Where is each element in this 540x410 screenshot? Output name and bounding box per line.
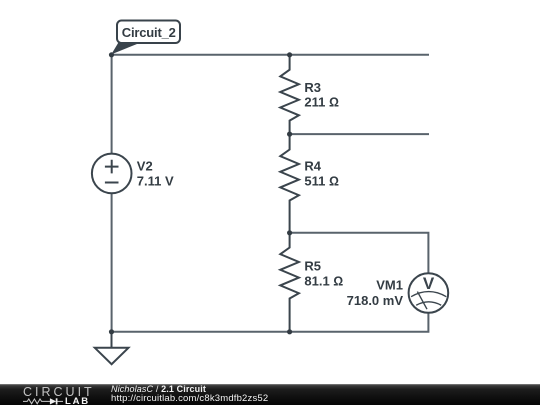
logo LAB text — [65, 398, 90, 406]
node: R5 bottom junction — [287, 329, 292, 334]
voltmeter VM1 — [409, 273, 449, 313]
label R4 value — [304, 159, 339, 189]
wire: mid rail below R3 to open terminal — [290, 133, 429, 135]
node: top-left junction — [109, 52, 114, 57]
label VM1 value — [347, 278, 404, 308]
wire: rail below R4 to voltmeter top — [290, 233, 429, 273]
footer bar — [0, 384, 540, 405]
CircuitLab logo zigzag-diode symbol — [23, 398, 65, 405]
attribution line 2 — [111, 394, 268, 404]
CircuitLab logo wordmark — [23, 387, 95, 398]
svg-text:V2: V2 — [137, 158, 153, 173]
svg-text:V: V — [423, 274, 435, 293]
node: R3 top junction — [287, 52, 292, 57]
wire: left rail lower (V2 to bottom rail) — [111, 193, 113, 332]
resistor R4 — [280, 134, 299, 233]
attribution line 1 — [111, 384, 206, 394]
label V2 value — [137, 158, 174, 188]
node: R4/R5 junction — [287, 230, 292, 235]
wire: left rail upper (top rail to V2) — [111, 55, 113, 154]
node: ground junction — [109, 329, 114, 334]
callout label Circuit_2 — [111, 21, 180, 55]
svg-text:R3: R3 — [304, 80, 321, 95]
svg-text:VM1: VM1 — [376, 278, 403, 293]
node: R3/R4 junction — [287, 132, 292, 137]
resistor R3 — [280, 55, 299, 134]
label R3 value — [304, 80, 339, 110]
svg-text:7.11 V: 7.11 V — [137, 174, 174, 189]
svg-text:R5: R5 — [304, 258, 321, 273]
resistor R5 — [280, 233, 299, 332]
svg-text:211 Ω: 211 Ω — [304, 95, 339, 110]
label R5 value — [304, 258, 343, 288]
ground — [95, 332, 129, 364]
voltage source V2 — [92, 154, 132, 194]
svg-text:718.0 mV: 718.0 mV — [347, 293, 404, 308]
svg-text:511 Ω: 511 Ω — [304, 174, 339, 189]
svg-text:Circuit_2: Circuit_2 — [122, 25, 176, 40]
svg-text:81.1 Ω: 81.1 Ω — [304, 274, 343, 289]
wire: top rail from V2 to open terminal — [112, 54, 430, 56]
svg-text:R4: R4 — [304, 159, 321, 174]
wire: bottom rail from ground node to voltmeter bottom — [112, 313, 429, 332]
